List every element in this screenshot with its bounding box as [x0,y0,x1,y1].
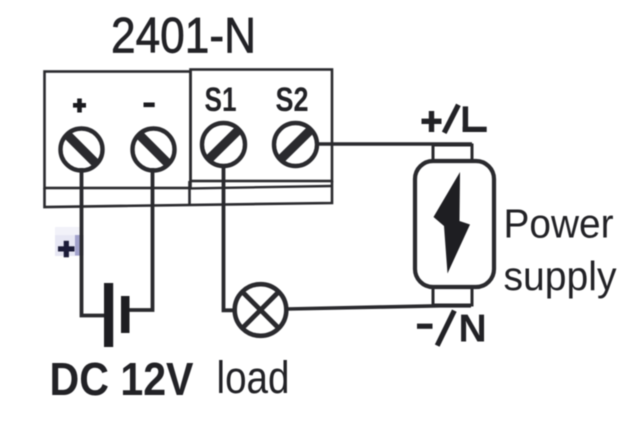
svg-text:N: N [459,307,487,350]
svg-text:S1: S1 [205,81,237,119]
wire from - terminal down to battery short plate [129,168,153,310]
svg-text:DC 12V: DC 12V [50,353,194,405]
power supply top terminal [433,145,472,161]
svg-text:S2: S2 [276,81,309,119]
wire from lamp to power supply bottom [287,306,471,309]
svg-text:supply: supply [504,253,618,299]
svg-text:Power: Power [504,201,614,247]
screw terminal + [61,129,103,171]
screw terminal S1 [202,123,245,166]
power supply body [415,161,494,287]
divider extension into strip [188,181,191,204]
label -/N [417,307,487,350]
wire from S2 terminal to power supply top [315,142,472,146]
lightning bolt [434,172,471,274]
battery long plate (+) [104,283,113,347]
battery short plate (-) [121,296,130,333]
svg-text:2401-N: 2401-N [111,8,256,64]
svg-text:load: load [217,352,290,403]
power supply bottom terminal [433,287,472,305]
wire from + terminal down to battery long plate [82,168,105,316]
screw terminal - [133,129,175,171]
terminal block right box [191,70,333,182]
terminal block left box [45,72,191,189]
label + (terminal) [73,99,86,113]
label +/L [422,105,487,133]
lamp (load) [235,284,287,336]
terminal block bottom strip [45,181,333,207]
label - (terminal) [144,103,155,108]
small + annotation [58,241,75,257]
screw terminal S2 [274,123,317,166]
highlight behind small + annotation [55,227,83,236]
wire from S1 terminal down to lamp [224,164,235,310]
strip mid line under right box [190,186,332,188]
